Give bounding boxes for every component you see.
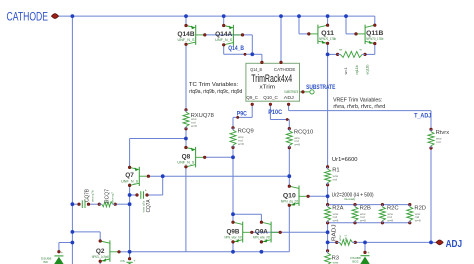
svg-text:w=8: w=8 xyxy=(238,142,244,146)
svg-text:Ur1=6600: Ur1=6600 xyxy=(332,157,358,163)
svg-text:rla-wadj: rla-wadj xyxy=(344,197,355,201)
svg-text:rnd: rnd xyxy=(436,140,441,144)
svg-text:DS: DS xyxy=(121,259,125,263)
svg-text:rq11b: rq11b xyxy=(355,65,359,74)
svg-text:NPN_wtw_7df: NPN_wtw_7df xyxy=(253,236,270,240)
svg-text:Q14B: Q14B xyxy=(177,31,195,38)
svg-text:Q9A: Q9A xyxy=(255,228,268,235)
svg-text:w=8: w=8 xyxy=(333,219,339,223)
svg-text:w=1: w=1 xyxy=(343,67,348,74)
svg-text:R2C: R2C xyxy=(387,205,399,211)
svg-text:TrimRack4x4: TrimRack4x4 xyxy=(251,73,292,85)
svg-text:P9C: P9C xyxy=(237,110,247,117)
svg-text:UNF_N_S: UNF_N_S xyxy=(177,161,195,165)
svg-text:rnd: rnd xyxy=(333,178,338,182)
svg-text:rla-1: rla-1 xyxy=(344,235,348,241)
svg-text:Q7: Q7 xyxy=(125,172,134,179)
svg-text:BD2: BD2 xyxy=(352,260,358,264)
svg-text:R2B: R2B xyxy=(360,205,371,211)
svg-text:Q9_C: Q9_C xyxy=(246,95,258,101)
svg-text:TC Trim Variables:: TC Trim Variables: xyxy=(189,82,239,88)
svg-text:BD: BD xyxy=(44,260,49,264)
svg-text:VREF Trim Variables:: VREF Trim Variables: xyxy=(333,98,383,104)
svg-text:CQ7A: CQ7A xyxy=(146,199,152,212)
svg-text:Q11B: Q11B xyxy=(366,30,384,37)
svg-text:UNF_N_S: UNF_N_S xyxy=(121,179,139,183)
svg-text:w=8: w=8 xyxy=(191,124,197,128)
svg-text:RADJ: RADJ xyxy=(332,224,338,241)
svg-text:w=8: w=8 xyxy=(387,219,393,223)
svg-text:CATHODE: CATHODE xyxy=(274,67,296,73)
svg-text:ADJ: ADJ xyxy=(284,95,295,101)
svg-text:Q9B: Q9B xyxy=(227,228,240,235)
svg-text:w=8: w=8 xyxy=(360,219,366,223)
svg-text:T_ADJ: T_ADJ xyxy=(414,112,432,119)
svg-text:NPN70_178b: NPN70_178b xyxy=(366,37,383,41)
svg-text:NPN7L_1x7de8: NPN7L_1x7de8 xyxy=(92,255,109,259)
svg-text:UNF_N_S: UNF_N_S xyxy=(178,38,196,42)
svg-text:Rtvrx: Rtvrx xyxy=(436,130,450,136)
svg-text:xTrim: xTrim xyxy=(260,85,276,91)
svg-text:Q2: Q2 xyxy=(96,248,105,255)
svg-text:R2A: R2A xyxy=(332,205,343,211)
svg-text:Q10: Q10 xyxy=(283,192,297,199)
svg-text:P10C: P10C xyxy=(268,109,282,116)
svg-text:CATHODE: CATHODE xyxy=(7,9,49,23)
svg-text:UNF_N_S: UNF_N_S xyxy=(215,38,233,42)
svg-text:Q14A: Q14A xyxy=(215,31,233,38)
svg-text:Q8: Q8 xyxy=(182,153,191,160)
svg-text:SUBSTRATE: SUBSTRATE xyxy=(306,84,336,91)
svg-text:Q14_B: Q14_B xyxy=(228,45,244,52)
svg-text:NPN_dq_Df: NPN_dq_Df xyxy=(281,200,298,204)
svg-text:ADJ: ADJ xyxy=(446,238,463,250)
svg-text:R2D: R2D xyxy=(414,205,426,211)
svg-text:wrw: wrw xyxy=(333,261,339,264)
svg-text:RCQ9: RCQ9 xyxy=(238,129,254,135)
svg-text:Q11: Q11 xyxy=(321,30,335,37)
svg-text:w=8: w=8 xyxy=(294,143,300,147)
svg-text:w=8: w=8 xyxy=(415,219,421,223)
svg-text:R1: R1 xyxy=(332,168,339,174)
svg-text:eq11b: eq11b xyxy=(366,65,370,75)
svg-text:rtq9a, rtq9b, rtq9c, rtq9d: rtq9a, rtq9b, rtq9c, rtq9d xyxy=(189,89,242,95)
svg-text:NPN_wtw_7df: NPN_wtw_7df xyxy=(225,236,242,240)
svg-text:wrw q7a: wrw q7a xyxy=(141,201,145,213)
svg-text:wrw q7b: wrw q7b xyxy=(91,190,95,202)
svg-text:NPN70_178b: NPN70_178b xyxy=(319,37,336,41)
svg-text:Q14_B: Q14_B xyxy=(250,67,262,73)
svg-text:rfvra, rfvrb, rfvrc, rfvrd: rfvra, rfvrb, rfvrc, rfvrd xyxy=(333,104,385,110)
svg-text:Q10_C: Q10_C xyxy=(263,95,278,101)
svg-text:RCQ10: RCQ10 xyxy=(294,129,313,135)
svg-text:SUBSTRATE: SUBSTRATE xyxy=(284,90,298,94)
svg-text:wrw rq7: wrw rq7 xyxy=(110,192,114,203)
svg-text:wrw: wrw xyxy=(338,235,342,241)
